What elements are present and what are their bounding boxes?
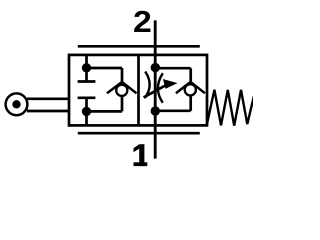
check valve ball left — [116, 85, 127, 96]
check valve seat right — [176, 82, 205, 93]
wire left stem upper — [85, 55, 88, 81]
wire port line 2-1 — [154, 20, 157, 158]
wire left stem lower — [85, 99, 88, 126]
throttle arc left — [145, 72, 150, 99]
wire right bypass top — [156, 67, 191, 70]
roller stem upper — [27, 97, 69, 100]
wire left bypass top — [87, 67, 123, 70]
return spring — [207, 90, 254, 126]
junction dot right lower — [151, 106, 160, 115]
wire left bypass leg lower — [121, 96, 124, 112]
svg-text:2: 2 — [133, 4, 152, 38]
blocked port T lower — [78, 96, 96, 99]
blocked port T upper — [78, 80, 96, 83]
roller actuator axle dot — [12, 100, 20, 108]
junction dot right upper — [151, 63, 160, 72]
wire left bypass bottom — [87, 110, 123, 113]
throttle adjust arrow shaft — [144, 85, 167, 98]
junction dot left upper — [82, 63, 91, 72]
throttle adjust arrow head — [164, 80, 177, 88]
wire right bypass leg upper — [189, 68, 192, 84]
top rail — [78, 45, 200, 48]
wire left bypass leg upper — [121, 68, 124, 85]
check valve ball right — [185, 84, 196, 95]
wire right bypass leg lower — [189, 95, 192, 110]
throttle arc right — [158, 73, 163, 103]
roller actuator wheel — [6, 93, 28, 115]
bottom rail — [78, 132, 200, 135]
valve body outline — [69, 55, 207, 126]
roller stem lower — [27, 110, 69, 113]
check valve seat left — [107, 82, 137, 93]
wire right bypass bottom — [156, 109, 191, 112]
junction dot left lower — [82, 107, 91, 116]
port label 1 — [134, 144, 148, 166]
position divider — [137, 55, 140, 126]
